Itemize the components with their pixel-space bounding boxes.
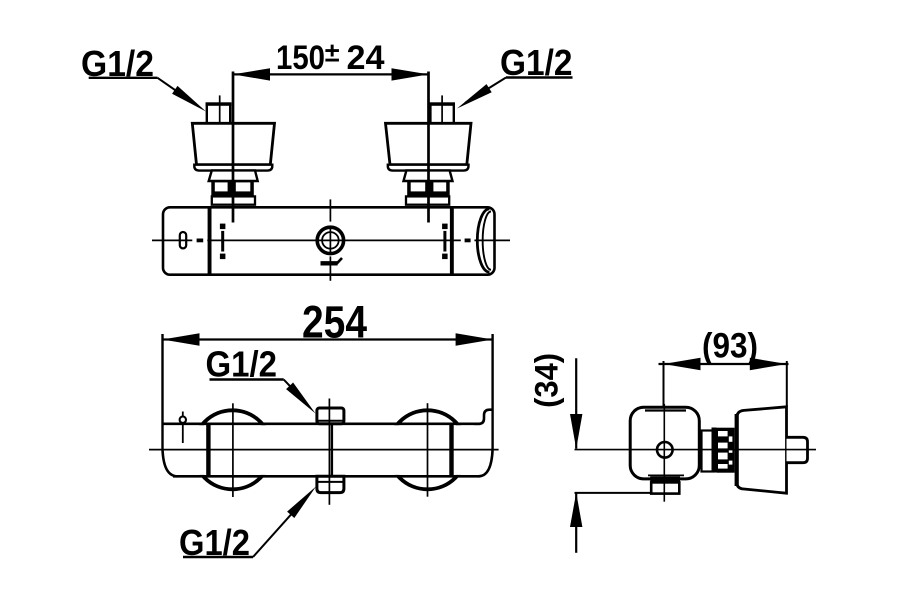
body cover (front) (164, 425, 492, 475)
circle centerline left (232, 403, 234, 497)
vertical centerline (side view) (663, 404, 665, 502)
right valve nipple top bar (thick) (429, 102, 455, 105)
valve circle right (front) (388, 410, 467, 489)
center knob circle outer (317, 227, 343, 253)
pivot circle (side view) (657, 442, 673, 458)
wall hook top right (474, 410, 493, 424)
right valve nipple centerline (441, 95, 443, 130)
svg-text:G1/2: G1/2 (206, 343, 278, 384)
handle (side view) (737, 407, 787, 493)
body section divider right (thick) (450, 207, 454, 274)
label G1/2 top-left leader (158, 78, 199, 106)
extension line / centerline left valve (232, 72, 235, 223)
inner top line (645, 409, 686, 411)
label G1/2 front-top underline (210, 378, 284, 380)
label G1/2 top-left leader arrowhead (172, 86, 206, 112)
nut below (side view) (650, 476, 680, 482)
label G1/2 front-bottom underline (183, 556, 253, 558)
knob (side view) (787, 437, 808, 462)
dimension 150±24 right arrowhead (392, 68, 429, 80)
thick bar left of left circle (206, 424, 210, 477)
right valve bonnet lip (388, 165, 469, 171)
label G1/2 front-top leader (284, 380, 305, 403)
thick bar right of right circle (449, 424, 453, 477)
dimension 254 line (163, 338, 493, 340)
dimension 254 right arrowhead (456, 333, 493, 345)
body right bottom curve (479, 449, 493, 476)
right valve nipple (430, 104, 453, 130)
dimension (34) vertical line bottom segment (575, 493, 577, 553)
right valve neck (404, 170, 453, 181)
svg-text:±: ± (325, 38, 340, 68)
svg-text:24: 24 (347, 39, 385, 77)
label G1/2 front-bottom leader (253, 505, 300, 558)
left valve rings (212, 196, 255, 204)
dimension (93) line (659, 363, 789, 365)
label G1/2 top-right leader arrowhead (457, 84, 492, 108)
coupler ribbed block (717, 428, 735, 473)
body left bottom curve (163, 449, 178, 476)
body bottom edge (front) (173, 475, 480, 478)
dimension 254 left arrowhead (163, 333, 200, 345)
left valve bonnet trapezoid (192, 123, 274, 164)
left valve nipple top bar (thick) (206, 102, 232, 105)
svg-text:150: 150 (276, 39, 325, 77)
body (top view) (163, 207, 495, 274)
reference line bottom (34) (575, 492, 652, 494)
extension line / centerline right valve (427, 72, 430, 223)
screw slot oval left end (180, 232, 186, 248)
svg-text:(34): (34) (528, 353, 564, 408)
coupler collar (thick) (712, 428, 717, 473)
left valve neck (209, 170, 258, 181)
label G1/2 top-right leader (465, 78, 506, 104)
label G1/2 front-top leader arrowhead (286, 383, 315, 414)
dimension 150±24 line (233, 73, 429, 75)
dimension (93) left arrowhead (664, 358, 701, 370)
screw left end (front) (182, 412, 184, 444)
lever mark under center circle (321, 261, 338, 265)
inner bottom line (648, 474, 684, 476)
horizontal centerline (top view) (152, 239, 510, 241)
extension line left (93) (663, 361, 665, 406)
svg-text:(93): (93) (702, 327, 758, 366)
center seam (front) (331, 424, 333, 477)
dimension 150±24 left arrowhead (233, 68, 270, 80)
label G1/2 front-bottom leader arrowhead (287, 487, 316, 519)
outlet nipple bottom (front) (317, 476, 344, 492)
valve circle left (front) (193, 410, 272, 489)
dimension (34) up arrowhead (570, 493, 582, 527)
horizontal centerline (side view) (575, 449, 817, 451)
outlet nipple top (front) (317, 408, 344, 424)
svg-text:254: 254 (302, 297, 367, 348)
dimension (34) vertical line top segment (575, 358, 577, 449)
end cap ellipse right (477, 209, 489, 272)
vertical centerline (top view center) (329, 199, 331, 280)
label G1/2 top-right underline (506, 76, 573, 78)
body left edge + 254 extension (161, 334, 163, 451)
circle centerline right (427, 403, 429, 497)
label G1/2 top-left underline (89, 77, 158, 79)
body top edge (front) (163, 422, 481, 425)
right valve nut (dark with windows) (407, 180, 450, 196)
extension line right (93) + handle right edge (786, 361, 788, 407)
left valve nipple (207, 104, 230, 130)
horizontal centerline (front view) (149, 449, 499, 451)
hidden port mark right (dash-dot) (442, 224, 448, 260)
dimension (34) down arrowhead (570, 414, 582, 449)
body right edge + 254 extension (491, 334, 493, 451)
left valve bonnet lip (194, 165, 272, 171)
left valve nipple centerline (219, 95, 221, 130)
right valve rings (406, 196, 449, 204)
center knob circle inner (322, 232, 339, 249)
outlet centerline vertical (328, 399, 330, 505)
coupler sleeve (702, 431, 715, 472)
hidden port mark left (dash-dot) (220, 224, 226, 260)
valve body rounded square (side view) (630, 407, 699, 479)
right valve bonnet trapezoid (386, 123, 472, 164)
left valve nut (dark with windows) (211, 180, 254, 196)
body section divider left (thick) (208, 207, 212, 274)
dimension (93) right arrowhead (750, 358, 787, 370)
